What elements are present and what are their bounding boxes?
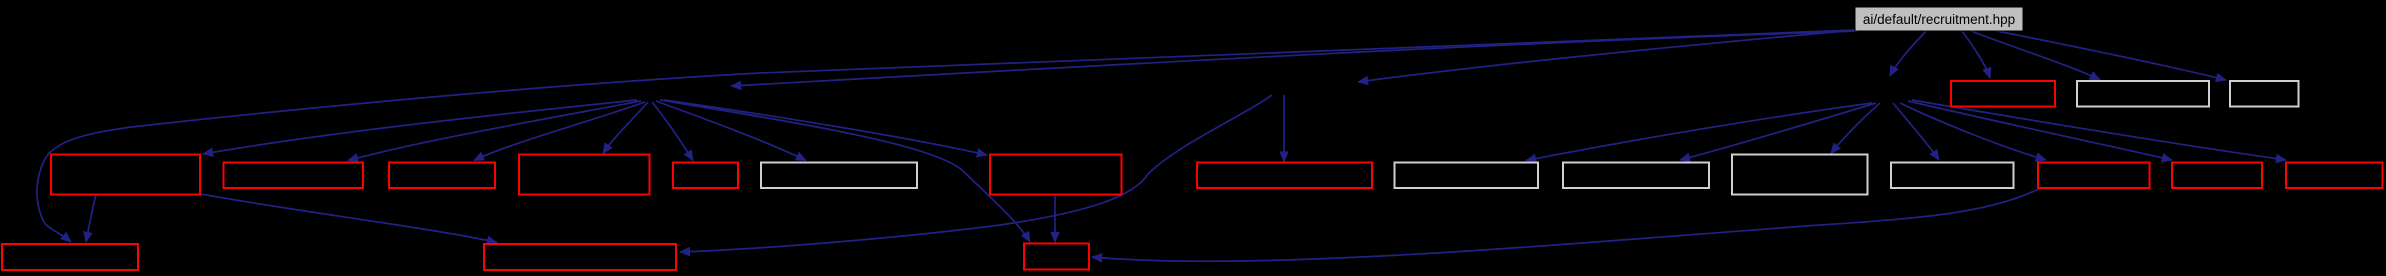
node M (2038, 163, 2150, 189)
wire node3 to M (1900, 103, 2046, 160)
node L (1891, 163, 2014, 189)
wire node1 to B (348, 101, 641, 161)
svg-text:ai/default/recruitment.hpp: ai/default/recruitment.hpp (1863, 12, 2015, 27)
wire node2 to Q (680, 95, 1272, 252)
wire node1 to D (603, 102, 648, 154)
node C (389, 163, 495, 189)
wire T to node1 (731, 31, 1858, 86)
wire A to Q (201, 194, 497, 243)
wire T to P swoop (37, 30, 1856, 242)
node Q (484, 244, 676, 270)
wire node3 to J (1680, 103, 1876, 160)
wire node1 to E (652, 102, 693, 161)
node W1c (2230, 81, 2299, 107)
wire T to node2 (1358, 30, 1857, 82)
wire node3 to K (1831, 103, 1880, 154)
wire node1 to A (203, 100, 637, 154)
wire node1 to G (664, 100, 987, 155)
wire T to node3 (1890, 31, 1926, 76)
node O (2286, 163, 2383, 189)
wire node2 to H (1283, 95, 1285, 162)
node J (1563, 163, 1709, 189)
node R (1024, 244, 1089, 270)
wire node1 to R (660, 100, 1030, 242)
wire T to W1c (1997, 31, 2226, 80)
node H (1197, 163, 1372, 189)
node E (673, 163, 738, 189)
node D (519, 155, 650, 195)
wire node3 to O (1912, 100, 2286, 160)
wire node3 to L (1893, 103, 1939, 160)
wire T to W1b (1971, 31, 2100, 80)
wire node3 to I (1526, 103, 1872, 161)
node F (761, 163, 917, 189)
wire A to P (86, 195, 96, 243)
node P (2, 244, 138, 270)
wire node1 to F (656, 101, 806, 161)
node B (224, 163, 364, 189)
node K (1732, 155, 1868, 195)
node I (1395, 163, 1539, 189)
wire M to R (1092, 189, 2039, 261)
node A (51, 155, 200, 195)
wire T to R1a (1962, 31, 1990, 78)
wire node1 to C (474, 102, 645, 161)
wire node3 to N (1908, 101, 2172, 160)
node R1a (1951, 81, 2055, 107)
node G (990, 155, 1122, 195)
wire G to R (1054, 195, 1056, 243)
node W1b (2077, 81, 2209, 107)
node T ai/default/recruitment.hpp (1855, 7, 2023, 31)
node N (2172, 163, 2262, 189)
